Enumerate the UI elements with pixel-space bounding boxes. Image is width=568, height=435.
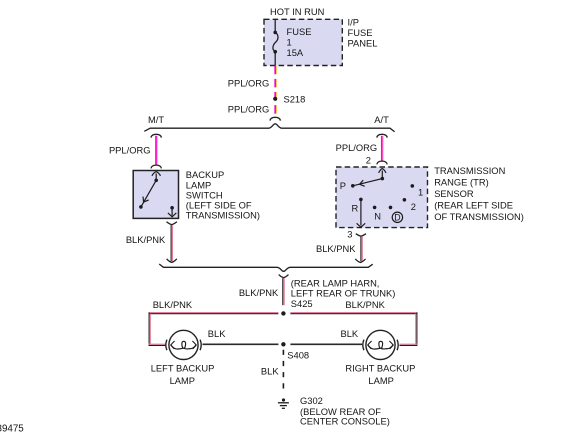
svg-text:CENTER CONSOLE): CENTER CONSOLE)	[300, 417, 390, 427]
svg-text:N: N	[374, 212, 381, 222]
svg-text:BLK: BLK	[261, 367, 279, 377]
svg-text:2: 2	[366, 155, 371, 165]
svg-text:89475: 89475	[0, 423, 24, 434]
svg-text:1: 1	[418, 188, 423, 198]
svg-text:PPL/ORG: PPL/ORG	[228, 79, 270, 89]
svg-text:FUSE: FUSE	[287, 27, 312, 37]
svg-text:LAMP: LAMP	[186, 180, 211, 190]
svg-text:3: 3	[347, 230, 352, 240]
svg-text:(BELOW REAR OF: (BELOW REAR OF	[300, 407, 381, 417]
svg-text:S408: S408	[287, 350, 309, 360]
svg-text:LAMP: LAMP	[368, 376, 393, 386]
svg-text:P: P	[340, 181, 346, 191]
svg-text:(REAR LAMP HARN,: (REAR LAMP HARN,	[291, 279, 380, 289]
svg-text:G302: G302	[300, 396, 323, 406]
svg-text:TRANSMISSION): TRANSMISSION)	[186, 211, 260, 221]
svg-text:BLK/PNK: BLK/PNK	[316, 244, 356, 254]
svg-text:BLK/PNK: BLK/PNK	[239, 288, 279, 298]
svg-text:S218: S218	[284, 95, 306, 105]
svg-text:BLK/PNK: BLK/PNK	[126, 235, 166, 245]
svg-text:BLK/PNK: BLK/PNK	[345, 300, 385, 310]
svg-text:BLK/PNK: BLK/PNK	[153, 300, 193, 310]
svg-text:D: D	[394, 213, 400, 223]
svg-text:(LEFT SIDE OF: (LEFT SIDE OF	[186, 201, 252, 211]
svg-text:M/T: M/T	[148, 115, 164, 125]
svg-text:PPL/ORG: PPL/ORG	[109, 146, 151, 156]
svg-text:LEFT REAR OF TRUNK): LEFT REAR OF TRUNK)	[291, 288, 396, 298]
svg-text:PPL/ORG: PPL/ORG	[336, 143, 378, 153]
svg-text:15A: 15A	[287, 48, 304, 58]
svg-text:I/P: I/P	[348, 17, 359, 27]
svg-text:(REAR LEFT SIDE: (REAR LEFT SIDE	[434, 201, 513, 211]
svg-text:RIGHT BACKUP: RIGHT BACKUP	[345, 364, 415, 374]
svg-text:BACKUP: BACKUP	[186, 170, 224, 180]
svg-text:LAMP: LAMP	[170, 376, 195, 386]
svg-text:FUSE: FUSE	[348, 28, 373, 38]
svg-text:BLK: BLK	[341, 329, 359, 339]
svg-text:1: 1	[287, 38, 292, 48]
svg-text:PANEL: PANEL	[348, 38, 378, 48]
svg-text:OF TRANSMISSION): OF TRANSMISSION)	[434, 212, 524, 222]
svg-text:SENSOR: SENSOR	[434, 189, 474, 199]
svg-text:HOT IN RUN: HOT IN RUN	[270, 7, 324, 17]
svg-text:LEFT BACKUP: LEFT BACKUP	[151, 364, 215, 374]
svg-text:2: 2	[411, 202, 416, 212]
svg-text:S425: S425	[291, 299, 313, 309]
svg-text:TRANSMISSION: TRANSMISSION	[434, 166, 505, 176]
svg-text:R: R	[351, 203, 358, 213]
svg-text:SWITCH: SWITCH	[186, 190, 223, 200]
svg-text:RANGE (TR): RANGE (TR)	[434, 178, 489, 188]
svg-text:PPL/ORG: PPL/ORG	[228, 105, 270, 115]
svg-text:A/T: A/T	[374, 115, 389, 125]
svg-text:BLK: BLK	[208, 329, 226, 339]
